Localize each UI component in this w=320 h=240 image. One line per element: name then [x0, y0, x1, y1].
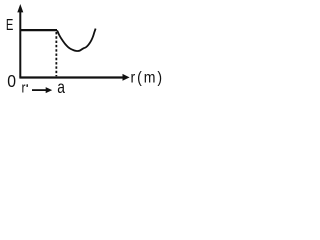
svg-text:E: E — [6, 15, 13, 34]
background — [0, 0, 164, 102]
svg-text:r: r — [22, 79, 26, 96]
small arrow r' to a — [32, 89, 47, 91]
apostrophe of r' — [26, 84, 28, 87]
svg-text:0: 0 — [7, 71, 16, 91]
plateau line at E level — [21, 29, 57, 31]
label r' — [22, 79, 26, 96]
origin label 0 — [7, 71, 16, 91]
y-axis arrowhead — [17, 4, 23, 12]
svg-text:r(m): r(m) — [131, 69, 165, 87]
svg-text:a: a — [57, 77, 65, 97]
y-axis — [19, 11, 21, 78]
label a — [57, 77, 65, 97]
dashed line at r=a — [55, 32, 57, 76]
x-axis — [19, 76, 123, 78]
small arrowhead — [46, 87, 53, 93]
x-axis arrowhead — [123, 74, 130, 81]
axis label E — [6, 15, 13, 34]
axis label r(m) — [131, 69, 165, 87]
potential well curve — [57, 29, 96, 51]
